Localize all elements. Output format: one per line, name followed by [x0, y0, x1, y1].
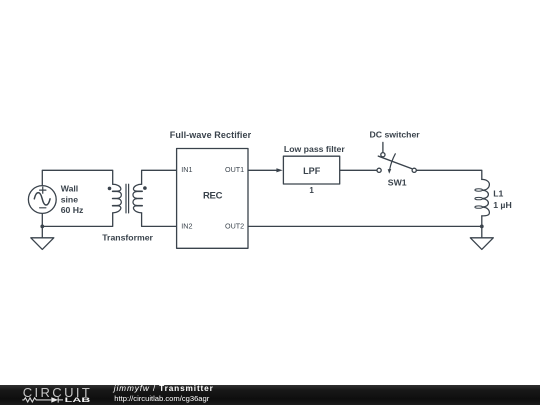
svg-text:LAB: LAB	[65, 397, 91, 404]
svg-text:OUT2: OUT2	[225, 222, 244, 231]
svg-text:DC switcher: DC switcher	[369, 129, 420, 139]
svg-text:SW1: SW1	[388, 177, 407, 187]
svg-text:L1: L1	[493, 189, 503, 199]
svg-text:LPF: LPF	[303, 166, 321, 176]
svg-text:60 Hz: 60 Hz	[61, 205, 84, 215]
svg-text:OUT1: OUT1	[225, 165, 244, 174]
svg-text:jimmyfw / Transmitter: jimmyfw / Transmitter	[113, 383, 214, 393]
svg-text:http://circuitlab.com/cg36agr: http://circuitlab.com/cg36agr	[114, 394, 209, 403]
svg-text:Full-wave Rectifier: Full-wave Rectifier	[170, 130, 252, 140]
svg-text:REC: REC	[203, 191, 223, 202]
svg-text:Transformer: Transformer	[102, 233, 153, 243]
svg-text:Wall: Wall	[61, 184, 79, 194]
svg-text:Low pass filter: Low pass filter	[284, 144, 345, 154]
svg-text:1: 1	[309, 186, 314, 195]
svg-text:IN2: IN2	[181, 222, 192, 231]
svg-text:sine: sine	[61, 194, 79, 204]
svg-text:1 µH: 1 µH	[493, 200, 512, 210]
svg-text:IN1: IN1	[181, 165, 192, 174]
